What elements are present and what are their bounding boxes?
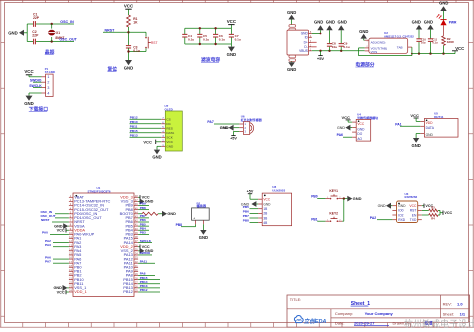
svg-text:GND: GND (166, 145, 174, 149)
svg-text:RST: RST (151, 41, 158, 45)
svg-text:VCC: VCC (444, 211, 452, 215)
svg-text:PB6: PB6 (243, 210, 249, 214)
svg-text:TAB: TAB (397, 45, 403, 49)
svg-text:0.1u: 0.1u (203, 37, 209, 41)
svg-text:22P: 22P (32, 34, 39, 38)
svg-text:GND: GND (398, 204, 406, 208)
svg-text:DC: DC (166, 122, 171, 126)
svg-text:RST: RST (410, 209, 417, 213)
ground (416, 25, 422, 30)
svg-text:PA1: PA1 (395, 122, 401, 126)
net label SWCLK (33, 87, 42, 89)
ground (125, 60, 132, 65)
svg-text:1B: 1B (263, 207, 267, 211)
wire net PB12 (138, 291, 160, 293)
ground VSS_1 (63, 285, 68, 291)
ground (317, 25, 323, 30)
svg-text:VCC: VCC (410, 113, 419, 118)
svg-text:ULN2003: ULN2003 (272, 188, 285, 192)
svg-text:DATA: DATA (426, 126, 435, 130)
svg-text:CS: CS (166, 118, 170, 122)
title block (287, 295, 470, 327)
capacitor C4 (184, 28, 186, 34)
wire top rail (185, 27, 232, 29)
resistor R3 (422, 209, 429, 211)
ground (230, 44, 232, 47)
svg-text:D+: D+ (304, 41, 308, 45)
svg-text:VCC: VCC (409, 204, 417, 208)
svg-text:22P: 22P (33, 16, 40, 20)
svg-text:PB1: PB1 (311, 217, 318, 221)
wire net PB13 (130, 136, 162, 138)
power VCC (125, 8, 131, 10)
svg-text:VBUS: VBUS (299, 49, 308, 53)
power VCC (454, 51, 456, 54)
svg-text:RES: RES (166, 127, 172, 131)
wire (343, 199, 345, 222)
wire net PB12 (130, 118, 162, 120)
wire net PA3 (53, 246, 69, 248)
node junction (127, 31, 129, 33)
ground (427, 25, 433, 30)
svg-text:VCC: VCC (263, 198, 270, 202)
capacitor C1 (33, 21, 35, 27)
svg-text:PB0: PB0 (311, 195, 318, 199)
svg-text:GND: GND (378, 204, 386, 208)
sheet border frame (0, 0, 2, 327)
ground (416, 133, 420, 135)
capacitor C8 (328, 50, 330, 52)
svg-text:DO: DO (357, 132, 362, 136)
svg-text:ESP8266: ESP8266 (405, 195, 418, 199)
capacitor C6 (215, 28, 217, 34)
svg-text:10u: 10u (332, 45, 337, 49)
svg-text:VOS: VOS (371, 50, 378, 54)
capacitor C11 (429, 52, 431, 54)
svg-text:GND: GND (287, 10, 296, 15)
svg-text:3: 3 (47, 86, 49, 90)
svg-text:GND: GND (227, 52, 237, 57)
svg-text:GND: GND (24, 101, 34, 106)
ground (338, 25, 344, 30)
power VCC VDD_3 (138, 196, 140, 198)
wire net NRST (52, 221, 69, 223)
svg-text:PB11: PB11 (130, 125, 138, 129)
svg-text:PB5: PB5 (243, 205, 249, 209)
wire (291, 60, 293, 63)
pin stub D+ (312, 41, 317, 43)
svg-text:SWCLK: SWCLK (140, 239, 152, 243)
svg-text:IO0: IO0 (398, 209, 403, 213)
svg-text:Company:: Company: (335, 311, 353, 316)
wire net PB6 (138, 221, 149, 223)
wire OSC_OUT rail (27, 41, 74, 43)
svg-text:R3: R3 (431, 206, 435, 210)
svg-text:0.1u: 0.1u (133, 49, 140, 53)
svg-text:GND: GND (424, 19, 433, 24)
ground VSS_2 (138, 250, 139, 252)
svg-text:VCC: VCC (357, 122, 364, 126)
ground (202, 224, 204, 230)
power +5V (234, 130, 240, 132)
svg-text:10u: 10u (421, 40, 426, 44)
connector USB J1 (287, 30, 309, 55)
svg-text:PB8: PB8 (176, 223, 183, 227)
svg-text:PA0: PA0 (42, 231, 48, 235)
wire net OSC_OUT (55, 217, 69, 219)
node OSC_IN junction (51, 23, 53, 25)
svg-text:GND: GND (411, 143, 420, 148)
wire net PB10 (130, 123, 162, 125)
ground (229, 125, 234, 131)
wire net PB8 (138, 209, 149, 211)
svg-text:330R: 330R (447, 40, 455, 44)
ground (345, 125, 350, 131)
wire (29, 76, 42, 78)
wire net PB5 uln (250, 208, 259, 210)
resistor R2 (442, 52, 444, 54)
svg-text:ST-LINK: ST-LINK (45, 70, 56, 74)
svg-text:PA2: PA2 (370, 216, 376, 220)
svg-text:NRST: NRST (41, 218, 50, 222)
wire net PB3 (138, 233, 149, 235)
svg-text:OSC_OUT: OSC_OUT (59, 38, 77, 42)
svg-text:0.1u: 0.1u (235, 37, 241, 41)
svg-text:GND: GND (124, 65, 134, 70)
svg-text:GND: GND (426, 133, 434, 137)
resistor R1 (127, 15, 131, 27)
wire net PB15 (130, 132, 162, 134)
svg-text:GND: GND (220, 126, 228, 130)
svg-text:0.1u: 0.1u (188, 37, 194, 41)
svg-text:TITLE:: TITLE: (290, 298, 301, 302)
svg-text:NRST: NRST (105, 28, 116, 32)
svg-text:GND: GND (167, 212, 176, 216)
svg-text:VCC: VCC (57, 290, 65, 294)
svg-text:1/1: 1/1 (460, 311, 466, 316)
svg-text:2020-09-27: 2020-09-27 (354, 321, 375, 326)
svg-text:GND: GND (263, 202, 271, 206)
svg-text:RXD: RXD (398, 218, 406, 222)
svg-text:Your Company: Your Company (365, 311, 394, 316)
wire net PB13 (138, 287, 160, 289)
svg-text:+5V: +5V (317, 56, 325, 61)
svg-text:KEY2: KEY2 (329, 211, 338, 215)
wire net PA6 (343, 136, 352, 138)
wire (29, 92, 42, 94)
svg-text:GND: GND (8, 30, 18, 35)
svg-text:PB8: PB8 (243, 219, 249, 223)
svg-text:VCC: VCC (24, 69, 34, 74)
wire net PB7 (138, 217, 149, 219)
wire net PA0 (50, 233, 69, 235)
wire net PB8 buzzer (195, 224, 197, 226)
ground (288, 62, 295, 67)
svg-text:VDD_1: VDD_1 (74, 289, 87, 294)
svg-text:GND: GND (199, 235, 208, 240)
svg-text:EN: EN (412, 213, 417, 217)
svg-text:VDD: VDD (426, 121, 434, 125)
svg-text:2B: 2B (263, 212, 267, 216)
svg-text:+: + (193, 216, 195, 220)
wire net PB11 (130, 127, 162, 129)
power +5V flag (319, 50, 321, 52)
ground (157, 145, 161, 147)
wire to button (129, 31, 147, 33)
svg-text:AO: AO (357, 137, 362, 141)
svg-text:PB15: PB15 (130, 129, 138, 133)
wire net PB15 (138, 279, 160, 281)
node junction (411, 53, 413, 55)
svg-text:VCC: VCC (57, 229, 65, 233)
pin stub D- (312, 46, 317, 48)
ground VSS_3 (138, 200, 139, 202)
capacitor C2 (33, 39, 36, 44)
svg-text:OSC_IN: OSC_IN (60, 20, 74, 24)
wire net PA2 esp (377, 219, 392, 221)
wire net PB9 (138, 205, 149, 207)
wire bottom rail (185, 43, 232, 45)
node junctions (199, 27, 201, 29)
wire (145, 48, 147, 51)
svg-text:KEY1: KEY1 (329, 189, 338, 193)
push button RST (145, 37, 147, 39)
svg-text:SWDIO: SWDIO (30, 78, 42, 82)
power VCC (26, 74, 32, 76)
crystal X1 (51, 24, 53, 29)
svg-text:SWDIO: SWDIO (140, 251, 151, 255)
svg-text:GND: GND (359, 29, 368, 34)
svg-text:GND: GND (326, 19, 335, 24)
svg-text:ADJ(GND): ADJ(GND) (371, 41, 386, 45)
svg-text:+5V: +5V (247, 190, 254, 194)
svg-text:DATA: DATA (166, 131, 175, 135)
ground (386, 203, 391, 209)
svg-text:PB3: PB3 (140, 231, 146, 235)
wire (128, 48, 130, 60)
wire VCC rail (412, 53, 455, 55)
wire net PA8 (138, 275, 155, 277)
svg-text:VCC: VCC (455, 46, 464, 51)
svg-text:PB13: PB13 (130, 134, 138, 138)
svg-text:VCC: VCC (166, 140, 173, 144)
svg-text:GND: GND (439, 1, 448, 6)
svg-text:PA6: PA6 (337, 133, 343, 137)
svg-text:0.1u: 0.1u (343, 45, 349, 49)
wire (24, 32, 27, 34)
svg-text:AMS1117-3.3_C347222: AMS1117-3.3_C347222 (384, 34, 414, 38)
svg-text:GND: GND (338, 19, 347, 24)
svg-text:SCK: SCK (166, 136, 173, 140)
wire GND pin (312, 33, 321, 35)
svg-text:0.1u: 0.1u (432, 40, 438, 44)
svg-text:PB7: PB7 (243, 214, 249, 218)
svg-text:GND: GND (152, 154, 161, 159)
power VCC (230, 25, 232, 29)
svg-text:PB10: PB10 (130, 120, 138, 124)
svg-text:红外对射传感器: 红外对射传感器 (241, 117, 263, 122)
ground (326, 25, 332, 30)
svg-text:REV:: REV: (443, 301, 452, 306)
svg-text:R4: R4 (431, 217, 435, 221)
svg-text:GND: GND (287, 67, 296, 72)
svg-text:GND: GND (314, 19, 323, 24)
wire net PB6 uln (250, 212, 259, 214)
wire net PA7 (53, 262, 69, 264)
svg-text:PB12: PB12 (130, 116, 138, 120)
wire net PA6 (53, 258, 69, 260)
net label SWDIO (33, 81, 42, 83)
svg-text:PA7: PA7 (45, 259, 51, 263)
wire OSC_IN rail (27, 23, 74, 25)
node junction (343, 197, 345, 199)
wire net PA11 (138, 262, 155, 264)
svg-text:X1: X1 (56, 31, 60, 35)
svg-text:立创EDA: 立创EDA (304, 318, 327, 325)
logo LCEDA (294, 316, 303, 323)
svg-text:PA7: PA7 (207, 120, 213, 124)
capacitor C3 (126, 45, 132, 48)
svg-text:4B: 4B (263, 221, 267, 225)
power VCC (422, 205, 424, 207)
svg-text:VCC: VCC (124, 4, 134, 9)
svg-text:Date:: Date: (335, 321, 345, 326)
svg-text:1K: 1K (133, 20, 138, 24)
wire net PB8 uln (250, 222, 259, 224)
node junction (127, 50, 129, 52)
svg-text:3B: 3B (263, 216, 267, 220)
connector USB J1 shell pads top (289, 25, 296, 28)
wire +5V rail (312, 50, 365, 52)
wire (291, 20, 293, 25)
svg-text:GND: GND (145, 200, 154, 204)
svg-text:IO2: IO2 (398, 213, 403, 217)
capacitor C5 (199, 28, 201, 34)
svg-text:PA3: PA3 (45, 243, 51, 247)
resistor R4 (422, 214, 429, 216)
resistor BOOT0 pulldown (138, 213, 142, 215)
svg-text:1.0: 1.0 (457, 301, 463, 306)
svg-text:VCC: VCC (143, 139, 152, 144)
ground (347, 196, 352, 202)
svg-text:GND: GND (353, 196, 362, 201)
svg-text:VCC: VCC (342, 115, 351, 120)
wire net PB4 (138, 229, 149, 231)
wire VOUT loop (359, 47, 365, 49)
svg-text:0.1u: 0.1u (219, 37, 225, 41)
wire net PA1 (400, 125, 420, 127)
svg-text:GND: GND (337, 126, 345, 130)
svg-text:GND: GND (412, 19, 421, 24)
svg-text:GND: GND (357, 127, 365, 131)
wire (438, 209, 440, 211)
ground (251, 201, 256, 207)
power VCC VDD_2 (138, 246, 140, 248)
svg-text:Sheet:: Sheet: (443, 311, 455, 316)
svg-text:PWR: PWR (449, 20, 457, 24)
capacitor C9 (340, 50, 342, 52)
svg-text:SWCLK: SWCLK (29, 84, 42, 88)
svg-text:PB8: PB8 (140, 206, 146, 210)
connector USB J1 shell pads bottom (289, 55, 296, 58)
ground VSSA (63, 223, 68, 229)
svg-text:杭州敏成电子设计: 杭州敏成电子设计 (404, 318, 474, 329)
svg-text:PB12: PB12 (140, 288, 148, 292)
svg-text:TXD: TXD (410, 218, 417, 222)
wire net PB7 uln (250, 217, 259, 219)
wire net PB14 (138, 283, 160, 285)
wire net PA2 (53, 242, 69, 244)
wire net SWCLK (138, 242, 152, 244)
capacitor C7 (230, 28, 232, 34)
ground (26, 96, 33, 101)
power VCC (442, 211, 444, 215)
wire net PA7 (214, 123, 239, 125)
node OSC_OUT junction (51, 40, 53, 42)
wire (443, 11, 445, 20)
svg-text:2: 2 (47, 81, 49, 85)
svg-text:+5V: +5V (230, 137, 237, 141)
wire net OSC_IN (55, 213, 69, 215)
ground (440, 6, 446, 11)
wire net PB5 (138, 225, 149, 227)
svg-text:PA11: PA11 (140, 259, 148, 263)
capacitor C10 (418, 52, 420, 54)
wire net SWDIO (138, 254, 152, 256)
svg-text:4: 4 (47, 91, 49, 95)
LED PWR (443, 25, 445, 36)
net label NRST (103, 31, 129, 33)
svg-text:PB12: PB12 (123, 289, 133, 294)
svg-text:VCC: VCC (227, 19, 237, 24)
svg-text:1: 1 (47, 75, 49, 79)
wire (342, 198, 347, 200)
wire (128, 27, 130, 46)
